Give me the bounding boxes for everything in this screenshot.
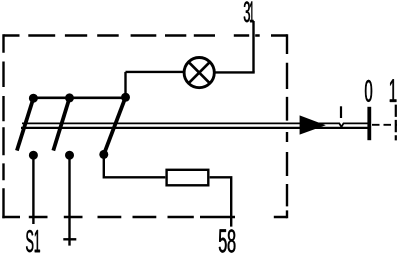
node top contact 3 [121,93,130,102]
terminal label S1 [26,230,40,252]
wire lamp right lead [214,71,255,73]
node top contact 2 [65,93,74,102]
terminal label + (drawn cross arm) [63,238,76,240]
wire terminal S1 [32,155,34,224]
switch enclosure dashed border bottom [2,216,287,218]
wire down to contact bus [124,72,126,98]
wire resistor to terminal 58 [210,177,232,226]
wire from bottom contact 3 to resistor [104,154,166,177]
position bar 1 (dashed) [395,105,397,141]
terminal label 58 [219,229,236,252]
wire 31 vertical [252,21,254,72]
position label 1 [390,79,397,102]
dashed travel line to position 1 [372,124,397,126]
wire top contact bus [33,97,125,100]
actuator rod upper line with detent notch [22,123,368,126]
switch blade 3 (closed) [104,97,126,154]
node top contact 1 [29,94,38,103]
wire lamp left lead [126,71,185,73]
switch blade 2 (open) [53,98,69,151]
switch enclosure dashed border right [286,34,288,218]
switch enclosure dashed border left [2,34,4,218]
position bar 0 (solid) [367,107,371,140]
switch enclosure dashed border top [4,34,288,36]
actuator rod lower line [21,127,368,129]
node bottom contact 3 [99,150,108,159]
position label 0 [365,80,372,102]
node bottom contact 2 [65,151,74,160]
switch blade 1 (open) [17,98,34,150]
terminal label 31 [244,1,254,22]
reference tick mark [340,106,342,118]
wire terminal + [68,155,70,245]
resistor R1 [167,170,209,186]
node bottom contact 1 [29,151,38,160]
lamp U1 (indicator light, circle with X) [184,58,214,88]
actuation arrow [300,115,326,134]
